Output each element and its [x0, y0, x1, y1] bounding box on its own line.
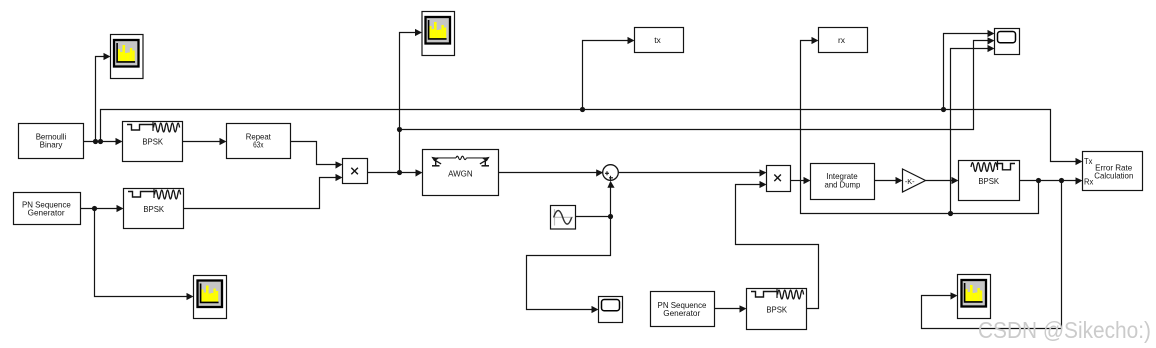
svg-text:BPSK: BPSK — [142, 137, 163, 147]
junction dot channel-in line tee — [397, 127, 402, 132]
wire tee up to Scope4 input 1 — [944, 34, 989, 110]
wire Product2 to Integrate and Dump — [791, 180, 805, 182]
wire tee up to tx goto tag — [583, 41, 629, 110]
wire Integrate and Dump to Gain — [875, 180, 897, 182]
svg-text:rx: rx — [838, 35, 846, 45]
wire PN Sequence Generator 2 to BPSK3 — [715, 308, 741, 310]
block BPSK4 demodulator — [959, 161, 1020, 201]
wire Sine Wave to Sum bottom input — [576, 188, 611, 217]
wire channel-in line to Scope4 input 2 — [400, 41, 989, 130]
junction dot branch to Scope1 — [93, 139, 98, 144]
wire branch down to Scope5 — [922, 181, 1062, 329]
svg-text:BPSK: BPSK — [143, 204, 164, 214]
block Gain -K- — [903, 169, 926, 192]
svg-text:and Dump: and Dump — [825, 180, 861, 190]
svg-text:BPSK: BPSK — [766, 304, 787, 314]
block BPSK2 modulator — [124, 189, 184, 229]
junction dot branch to tx net — [98, 139, 103, 144]
scope Scope5 spectrum bottom-right — [958, 275, 991, 319]
wire rx loop back to rx goto tag — [801, 41, 1039, 214]
junction dot branch to Scope6 — [92, 206, 97, 211]
wire branch up to Scope2 — [400, 33, 416, 173]
junction dot scope4 ch1 tee — [941, 107, 946, 112]
junction dot tx tag tee — [580, 107, 585, 112]
block PN Sequence Generator 2 — [651, 292, 715, 327]
scope Scope1 spectrum — [111, 35, 144, 79]
wire BPSK1 to Repeat — [183, 141, 221, 143]
svg-text:BPSK: BPSK — [978, 176, 999, 186]
junction dot product1 output tee — [397, 170, 402, 175]
block Sum — [603, 165, 619, 181]
scope Scope2 spectrum top — [422, 12, 455, 56]
wire branch sine to Scope3 — [527, 217, 611, 310]
wire tee up to Scope4 input 3 — [951, 49, 989, 214]
wire tx net: Bernoulli to Error Rate Tx input — [101, 110, 1077, 162]
svg-text:Generator: Generator — [28, 208, 65, 218]
svg-text:-K-: -K- — [905, 179, 915, 186]
scope Scope4 plain 3-input — [995, 29, 1020, 55]
wire Product1 output to AWGN — [368, 172, 417, 174]
block Error Rate Calculation — [1083, 152, 1143, 191]
goto tag tx — [635, 28, 684, 53]
wire BPSK3 to Product2 input 2 — [736, 185, 819, 309]
wire Bernoulli output to BPSK1 — [84, 141, 117, 143]
wire branch up to Scope1 — [96, 57, 105, 142]
scope Scope3 plain — [599, 297, 623, 323]
wire Repeat to Product1 input 1 — [291, 142, 337, 165]
wire BPSK2 to Product1 input 2 — [184, 178, 337, 209]
block AWGN channel — [423, 150, 499, 196]
scope Scope6 spectrum bottom-left — [194, 276, 227, 319]
wire branch down to Scope6 — [95, 209, 188, 297]
junction dot scope4 ch3 tee — [948, 211, 953, 216]
block BPSK3 modulator — [747, 289, 807, 330]
svg-text:tx: tx — [654, 35, 661, 45]
svg-text:63x: 63x — [253, 140, 264, 150]
svg-text:Binary: Binary — [40, 140, 64, 150]
block Product2 — [767, 166, 791, 192]
goto tag rx — [819, 28, 868, 53]
wire rx net: BPSK4 output to Error Rate Rx input — [1020, 180, 1077, 182]
block Sine Wave — [551, 206, 576, 230]
junction dot scope5 tee — [1059, 178, 1064, 183]
svg-text:Tx: Tx — [1084, 156, 1093, 166]
wire AWGN to Sum — [499, 172, 598, 174]
svg-text:CSDN @Sikecho:): CSDN @Sikecho:) — [978, 317, 1151, 343]
block PN Sequence Generator 1 — [14, 193, 81, 225]
wire PN Sequence Generator 1 to BPSK2 — [81, 208, 118, 210]
block Repeat 63x — [227, 124, 291, 159]
svg-text:AWGN: AWGN — [448, 169, 473, 179]
block Product1 — [343, 159, 368, 184]
block Integrate and Dump — [811, 164, 875, 200]
block BPSK1 modulator — [123, 122, 183, 162]
wire Gain to BPSK4 — [926, 180, 953, 182]
junction dot sine output tee — [608, 214, 613, 219]
block Bernoulli Binary — [19, 124, 84, 159]
junction dot rx loop tee — [1036, 178, 1041, 183]
svg-text:Calculation: Calculation — [1094, 170, 1133, 180]
svg-text:Rx: Rx — [1084, 176, 1094, 186]
svg-text:Generator: Generator — [663, 308, 700, 318]
wire Sum output to Product2 input 1 — [619, 172, 760, 174]
